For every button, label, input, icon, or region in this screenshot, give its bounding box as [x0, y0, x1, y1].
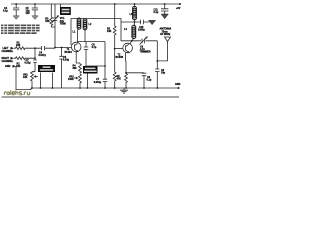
- svg-text:22K: 22K: [16, 44, 21, 47]
- svg-text:0.1µ: 0.1µ: [3, 10, 8, 13]
- svg-text:OF WIRE: OF WIRE: [160, 33, 171, 36]
- svg-text:4.7p: 4.7p: [92, 46, 97, 49]
- svg-text:47K: 47K: [117, 78, 122, 81]
- svg-text:100K: 100K: [68, 78, 74, 81]
- svg-text:1000p: 1000p: [138, 28, 145, 31]
- svg-text:0.047µ: 0.047µ: [39, 54, 47, 57]
- svg-text:10K: 10K: [23, 76, 28, 79]
- svg-text:+9V: +9V: [176, 7, 181, 10]
- svg-text:0.1µ: 0.1µ: [147, 79, 152, 82]
- svg-text:10K: 10K: [107, 30, 112, 33]
- svg-text:TRIMMER: TRIMMER: [140, 51, 151, 54]
- svg-text:BC548: BC548: [116, 56, 124, 59]
- svg-text:390: 390: [73, 67, 78, 70]
- svg-text:16V: 16V: [26, 12, 31, 15]
- svg-text:GND: GND: [175, 83, 181, 86]
- svg-text:33p: 33p: [161, 72, 166, 75]
- svg-text:CHANNEL: CHANNEL: [2, 50, 14, 53]
- svg-text:CHANNEL: CHANNEL: [2, 60, 14, 63]
- svg-text:BF494: BF494: [65, 51, 73, 54]
- svg-text:10K: 10K: [45, 20, 50, 23]
- svg-text:0.001µ: 0.001µ: [94, 81, 102, 84]
- svg-text:0.1µ: 0.1µ: [154, 11, 159, 14]
- svg-text:GND: GND: [5, 65, 11, 68]
- svg-text:TRIM: TRIM: [60, 22, 66, 25]
- svg-text:22K: 22K: [16, 65, 21, 68]
- svg-text:0.01µ: 0.01µ: [25, 62, 32, 65]
- svg-text:0.01µ: 0.01µ: [63, 59, 70, 62]
